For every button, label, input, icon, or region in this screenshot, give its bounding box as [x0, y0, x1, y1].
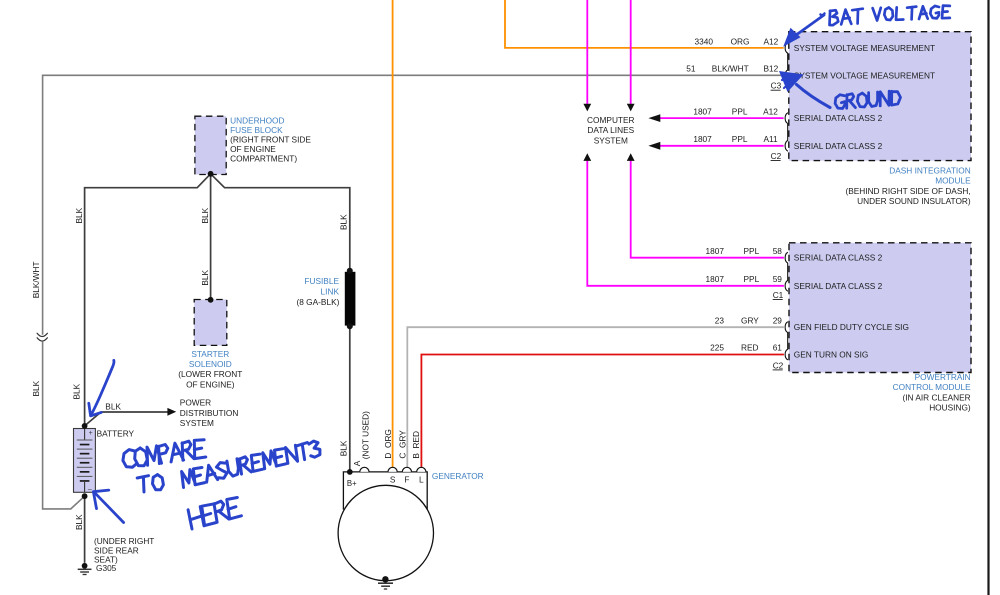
- wire label 23 GRY 29: [715, 315, 783, 325]
- splice break symbol on BLK/WHT wire: [37, 333, 47, 341]
- svg-text:SYSTEM: SYSTEM: [594, 136, 628, 146]
- generator terminal label F: [404, 475, 409, 485]
- wire 23 GRY from PCM pin 29 to generator F terminal: [407, 327, 784, 467]
- svg-text:BLK: BLK: [339, 440, 349, 456]
- svg-text:UNDER SOUND INSULATOR): UNDER SOUND INSULATOR): [857, 196, 971, 206]
- wire label 1807 PPL A11: [693, 134, 778, 144]
- svg-text:(LOWER FRONT: (LOWER FRONT: [178, 369, 242, 379]
- wire 1807 PPL from PCM pin 59 up to computer data lines system: [587, 161, 784, 286]
- svg-text:POWER: POWER: [180, 398, 211, 408]
- wire ORG from top to DIM pin A12: [505, 0, 784, 48]
- svg-text:(BEHIND RIGHT SIDE OF DASH,: (BEHIND RIGHT SIDE OF DASH,: [845, 186, 970, 196]
- wire 1807 PPL from DIM A11 to computer data lines system: [660, 145, 784, 147]
- svg-text:C2: C2: [773, 360, 784, 370]
- wire ORG vertical to generator S terminal: [392, 0, 394, 467]
- connector label C3: [771, 81, 782, 91]
- svg-text:61: 61: [773, 343, 783, 353]
- svg-text:3340: 3340: [695, 36, 714, 46]
- pin label system voltage measurement (A12): [794, 43, 935, 53]
- svg-text:B12: B12: [764, 64, 779, 74]
- wire from fuse block down to starter solenoid: [210, 174, 212, 300]
- svg-text:SOLENOID: SOLENOID: [189, 359, 232, 369]
- svg-text:1807: 1807: [693, 106, 712, 116]
- svg-text:A12: A12: [763, 106, 778, 116]
- svg-text:(UNDER RIGHT: (UNDER RIGHT: [94, 536, 154, 546]
- arrowhead left (DIM A11 row): [648, 142, 660, 150]
- svg-text:ORG: ORG: [731, 36, 750, 46]
- svg-text:1807: 1807: [693, 134, 712, 144]
- wire bus from battery positive up to underhood fuse block: [85, 174, 211, 426]
- arrowhead down (right data wire): [627, 104, 635, 112]
- svg-text:C2: C2: [771, 151, 782, 161]
- svg-text:58: 58: [773, 246, 783, 256]
- svg-text:29: 29: [773, 315, 783, 325]
- pin label serial data class 2 (A12): [794, 113, 883, 123]
- svg-text:DISTRIBUTION: DISTRIBUTION: [180, 408, 239, 418]
- svg-text:PPL: PPL: [732, 134, 748, 144]
- svg-text:A11: A11: [764, 134, 779, 144]
- ground symbol G305: [78, 563, 92, 575]
- handwritten note TO: [137, 475, 163, 492]
- svg-text:BLK: BLK: [200, 207, 210, 223]
- generator terminal box: [343, 472, 427, 510]
- svg-text:BLK: BLK: [105, 401, 121, 411]
- connector C3 pin brackets (A12/B12): [785, 43, 788, 81]
- svg-text:1807: 1807: [706, 246, 725, 256]
- wire BLK from fusible link to generator B+ terminal: [349, 326, 351, 472]
- svg-text:CONTROL MODULE: CONTROL MODULE: [893, 382, 972, 392]
- wire label BLK (battery positive riser): [71, 383, 81, 399]
- arrowhead to power distribution system: [167, 408, 176, 416]
- label powertrain control module: [893, 372, 972, 413]
- label starter solenoid: [178, 349, 242, 389]
- battery plus sign: [89, 430, 93, 437]
- svg-text:DASH INTEGRATION: DASH INTEGRATION: [889, 165, 970, 175]
- wire label 3340 ORG A12: [695, 36, 779, 46]
- wire label 1807 PPL 59: [706, 274, 783, 284]
- junction dot battery negative: [82, 493, 88, 499]
- svg-text:BLK: BLK: [74, 207, 84, 223]
- wire label 51 BLK/WHT B12: [686, 64, 778, 74]
- svg-text:BLK: BLK: [200, 269, 210, 285]
- svg-text:C GRY: C GRY: [397, 430, 407, 459]
- wire 1807 PPL from PCM pin 58 up to computer data lines system: [631, 161, 784, 258]
- junction dot at fuse block output: [208, 171, 214, 177]
- svg-text:B+: B+: [347, 479, 357, 488]
- svg-text:GEN TURN ON SIG: GEN TURN ON SIG: [794, 350, 869, 360]
- svg-text:51: 51: [686, 64, 696, 74]
- wire label BLK (fuse block to solenoid lower): [200, 269, 210, 285]
- svg-text:D ORG: D ORG: [383, 429, 393, 459]
- generator body circle: [338, 485, 433, 580]
- wire PPL class-2 data vertical (left) into computer data lines system: [586, 0, 588, 104]
- connector C2 pin brackets (29/61): [785, 322, 788, 360]
- svg-text:C3: C3: [771, 81, 782, 91]
- wire label 225 RED 61: [710, 343, 782, 353]
- generator ground symbol: [378, 576, 393, 589]
- svg-text:STARTER: STARTER: [191, 349, 229, 359]
- svg-text:PPL: PPL: [732, 106, 748, 116]
- connector label C2 (PCM): [773, 360, 784, 370]
- connector label C2 (DIM): [771, 151, 782, 161]
- svg-text:SERIAL DATA CLASS 2: SERIAL DATA CLASS 2: [794, 281, 883, 291]
- label BLK on power distribution wire: [105, 401, 121, 411]
- junction dot generator B+ input: [347, 469, 353, 475]
- svg-text:SERIAL DATA CLASS 2: SERIAL DATA CLASS 2: [794, 253, 883, 263]
- label computer data lines system: [587, 115, 635, 146]
- wire BLK lower left segment to battery negative: [43, 342, 85, 509]
- svg-text:SYSTEM VOLTAGE MEASUREMENT: SYSTEM VOLTAGE MEASUREMENT: [794, 70, 935, 80]
- svg-text:LINK: LINK: [321, 286, 340, 296]
- battery minus sign: [88, 486, 92, 493]
- arrowhead left (DIM A12 row): [648, 114, 660, 122]
- svg-text:GRY: GRY: [741, 315, 759, 325]
- svg-text:MODULE: MODULE: [935, 176, 971, 186]
- pin label serial data class 2 (58): [794, 253, 883, 263]
- arrowhead up (left): [583, 153, 591, 161]
- wire label 1807 PPL A12: [693, 106, 778, 116]
- pin label A generator: [352, 460, 362, 466]
- handwritten note BAT VOLTAGE: [830, 6, 950, 26]
- wire label BLK (left bus drop): [74, 207, 84, 223]
- wire BLK/WHT from battery area up left side and across top to B12: [43, 75, 784, 335]
- svg-text:COMPUTER: COMPUTER: [587, 115, 634, 125]
- svg-text:1807: 1807: [706, 274, 725, 284]
- svg-text:A12: A12: [764, 36, 779, 46]
- powertrain control module box: [789, 243, 971, 373]
- pin label gen field duty cycle sig (29): [794, 322, 909, 332]
- wire label C GRY: [397, 430, 407, 459]
- handwritten arrow to battery positive: [89, 360, 114, 416]
- svg-text:SYSTEM: SYSTEM: [180, 418, 214, 428]
- pin label serial data class 2 (59): [794, 281, 883, 291]
- wire label BLK (generator B+ feed): [339, 440, 349, 456]
- svg-text:A: A: [352, 460, 362, 466]
- svg-text:RED: RED: [741, 343, 759, 353]
- svg-text:F: F: [404, 475, 409, 485]
- wire label 1807 PPL 58: [706, 246, 783, 256]
- handwritten arrow to battery negative: [93, 490, 123, 522]
- svg-text:SERIAL DATA CLASS 2: SERIAL DATA CLASS 2: [794, 113, 883, 123]
- generator terminal label B+: [347, 479, 357, 488]
- svg-text:B RED: B RED: [411, 431, 421, 459]
- label fusible link: [297, 276, 340, 307]
- svg-text:BLK: BLK: [31, 380, 41, 396]
- dash integration module box: [789, 32, 971, 161]
- svg-text:23: 23: [715, 315, 725, 325]
- junction dot fusible link top: [347, 268, 353, 274]
- underhood fuse block box: [195, 116, 226, 174]
- svg-text:GEN FIELD DUTY CYCLE SIG: GEN FIELD DUTY CYCLE SIG: [794, 322, 909, 332]
- fusible link element: [345, 272, 356, 326]
- handwritten arrow to A12 bat voltage: [783, 14, 824, 47]
- connector C1 pin brackets (58/59): [785, 252, 788, 291]
- label ground G305: [96, 563, 117, 573]
- svg-text:BATTERY: BATTERY: [97, 428, 135, 438]
- wire label BLK (fusible link feed): [339, 214, 349, 230]
- svg-text:PPL: PPL: [744, 246, 760, 256]
- diagram page right border: [987, 0, 989, 595]
- svg-text:–: –: [88, 486, 92, 493]
- handwritten note HERE: [188, 498, 241, 530]
- pin label gen turn on sig (61): [794, 350, 869, 360]
- connector C2 pin brackets (A12/A11): [785, 113, 788, 152]
- svg-text:BLK: BLK: [74, 514, 84, 530]
- label dash integration module: [845, 165, 971, 206]
- generator terminal label L: [419, 475, 424, 485]
- svg-text:HOUSING): HOUSING): [929, 403, 971, 413]
- svg-text:SERIAL DATA CLASS 2: SERIAL DATA CLASS 2: [794, 141, 883, 151]
- wire label B RED: [411, 431, 421, 459]
- pin label serial data class 2 (A11): [794, 141, 883, 151]
- svg-text:SYSTEM VOLTAGE MEASUREMENT: SYSTEM VOLTAGE MEASUREMENT: [794, 43, 935, 53]
- wire BLK battery negative to ground G305: [84, 496, 86, 563]
- svg-text:225: 225: [710, 343, 724, 353]
- arrowhead up (right): [627, 153, 635, 161]
- label generator: [432, 471, 484, 481]
- label power distribution system: [180, 398, 239, 429]
- junction dot battery positive: [82, 423, 88, 429]
- svg-text:BLK: BLK: [339, 214, 349, 230]
- svg-text:DATA LINES: DATA LINES: [587, 125, 634, 135]
- pin label system voltage measurement (B12): [794, 70, 935, 80]
- handwritten note COMPARE: [123, 440, 206, 468]
- svg-text:GENERATOR: GENERATOR: [432, 471, 484, 481]
- generator pin bumps A S F L: [360, 467, 426, 472]
- label (NOT USED) generator pin A: [360, 411, 370, 459]
- connector label C1: [773, 290, 784, 300]
- svg-text:+: +: [89, 430, 93, 437]
- junction dot at starter solenoid input: [208, 297, 214, 303]
- svg-text:PPL: PPL: [744, 274, 760, 284]
- generator terminal label S: [390, 475, 396, 485]
- arrowhead down (left data wire): [583, 104, 591, 112]
- wire 225 RED from PCM pin 61 to generator L terminal: [421, 355, 784, 468]
- svg-text:OF ENGINE): OF ENGINE): [186, 379, 235, 389]
- svg-text:BLK/WHT: BLK/WHT: [712, 64, 749, 74]
- wire label BLK/WHT (left riser): [31, 261, 41, 298]
- wire 1807 PPL from DIM A12 to computer data lines system: [660, 117, 784, 119]
- junction dot fusible link bottom: [347, 323, 353, 329]
- svg-text:G305: G305: [96, 563, 117, 573]
- wire PPL class-2 data vertical (right) into computer data lines system: [630, 0, 632, 104]
- label underhood fuse block: [230, 116, 311, 164]
- svg-text:COMPARTMENT): COMPARTMENT): [230, 153, 297, 163]
- handwritten note GROUND: [835, 91, 900, 108]
- label battery: [97, 428, 135, 438]
- wire label BLK (fuse block to solenoid upper): [200, 207, 210, 223]
- starter solenoid box: [194, 300, 227, 346]
- svg-text:(IN AIR CLEANER: (IN AIR CLEANER: [902, 392, 970, 402]
- svg-text:L: L: [419, 475, 424, 485]
- wire from fuse block to fusible link (right branch of bus): [211, 174, 350, 271]
- wire label BLK (left riser below splice): [31, 380, 41, 396]
- svg-text:(NOT USED): (NOT USED): [360, 411, 370, 459]
- battery with cell plates: [74, 429, 96, 493]
- handwritten arrow to B12 ground: [779, 71, 830, 108]
- wire label BLK (battery negative drop): [74, 514, 84, 530]
- svg-text:S: S: [390, 475, 396, 485]
- label G305 location: [94, 536, 154, 565]
- svg-text:POWERTRAIN: POWERTRAIN: [915, 372, 971, 382]
- handwritten note MEASUREMENTS: [182, 441, 320, 487]
- svg-text:59: 59: [773, 274, 783, 284]
- svg-text:C1: C1: [773, 290, 784, 300]
- wire BLK battery positive to power distribution arrow: [85, 412, 168, 426]
- svg-text:BLK: BLK: [71, 383, 81, 399]
- svg-text:FUSIBLE: FUSIBLE: [304, 276, 339, 286]
- wire label D ORG: [383, 429, 393, 459]
- svg-text:(8 GA-BLK): (8 GA-BLK): [297, 297, 340, 307]
- svg-text:BLK/WHT: BLK/WHT: [31, 261, 41, 298]
